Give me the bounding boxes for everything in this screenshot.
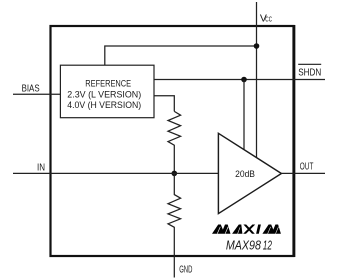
wire BIAS pin xyxy=(13,93,60,95)
svg-text:2.3V (L VERSION): 2.3V (L VERSION) xyxy=(67,89,141,99)
svg-text:SHDN: SHDN xyxy=(298,67,321,78)
node junction IN/R1/R2 xyxy=(172,171,178,177)
svg-text:OUT: OUT xyxy=(300,161,314,173)
IC outline box U1 xyxy=(51,26,294,256)
wire IN pin to op-amp xyxy=(13,172,218,174)
node SHDN label with overbar xyxy=(298,64,321,78)
node Vcc label xyxy=(260,13,272,25)
svg-text:CC: CC xyxy=(265,15,272,24)
node junction SHDN xyxy=(241,77,247,83)
resistor R2 xyxy=(168,173,181,256)
op-amp U2 20dB amplifier xyxy=(218,133,281,213)
svg-text:GND: GND xyxy=(179,264,192,275)
svg-text:MAX98: MAX98 xyxy=(226,238,261,252)
svg-text:20dB: 20dB xyxy=(235,169,255,180)
svg-text:BIAS: BIAS xyxy=(22,84,40,95)
wire SHDN net xyxy=(154,79,325,81)
node junction Vcc/reference xyxy=(254,43,260,49)
wire right border reinforcement xyxy=(294,25,296,257)
wire SHDN junction to op-amp xyxy=(243,80,245,150)
wire reference to resistor R1 xyxy=(154,96,174,112)
MAXIM logo xyxy=(212,225,281,234)
wire OUT pin xyxy=(281,172,325,174)
svg-text:4.0V (H VERSION): 4.0V (H VERSION) xyxy=(67,100,141,110)
reference block REFERENCE 2.3V/4.0V xyxy=(60,65,154,118)
resistor R1 xyxy=(168,111,181,173)
wire Vcc vertical xyxy=(256,2,258,157)
svg-text:REFERENCE: REFERENCE xyxy=(85,78,131,88)
svg-text:IN: IN xyxy=(37,163,45,174)
wire reference-top to Vcc rail xyxy=(105,46,257,65)
wire GND pin stub xyxy=(173,256,175,278)
svg-text:12: 12 xyxy=(263,238,272,252)
